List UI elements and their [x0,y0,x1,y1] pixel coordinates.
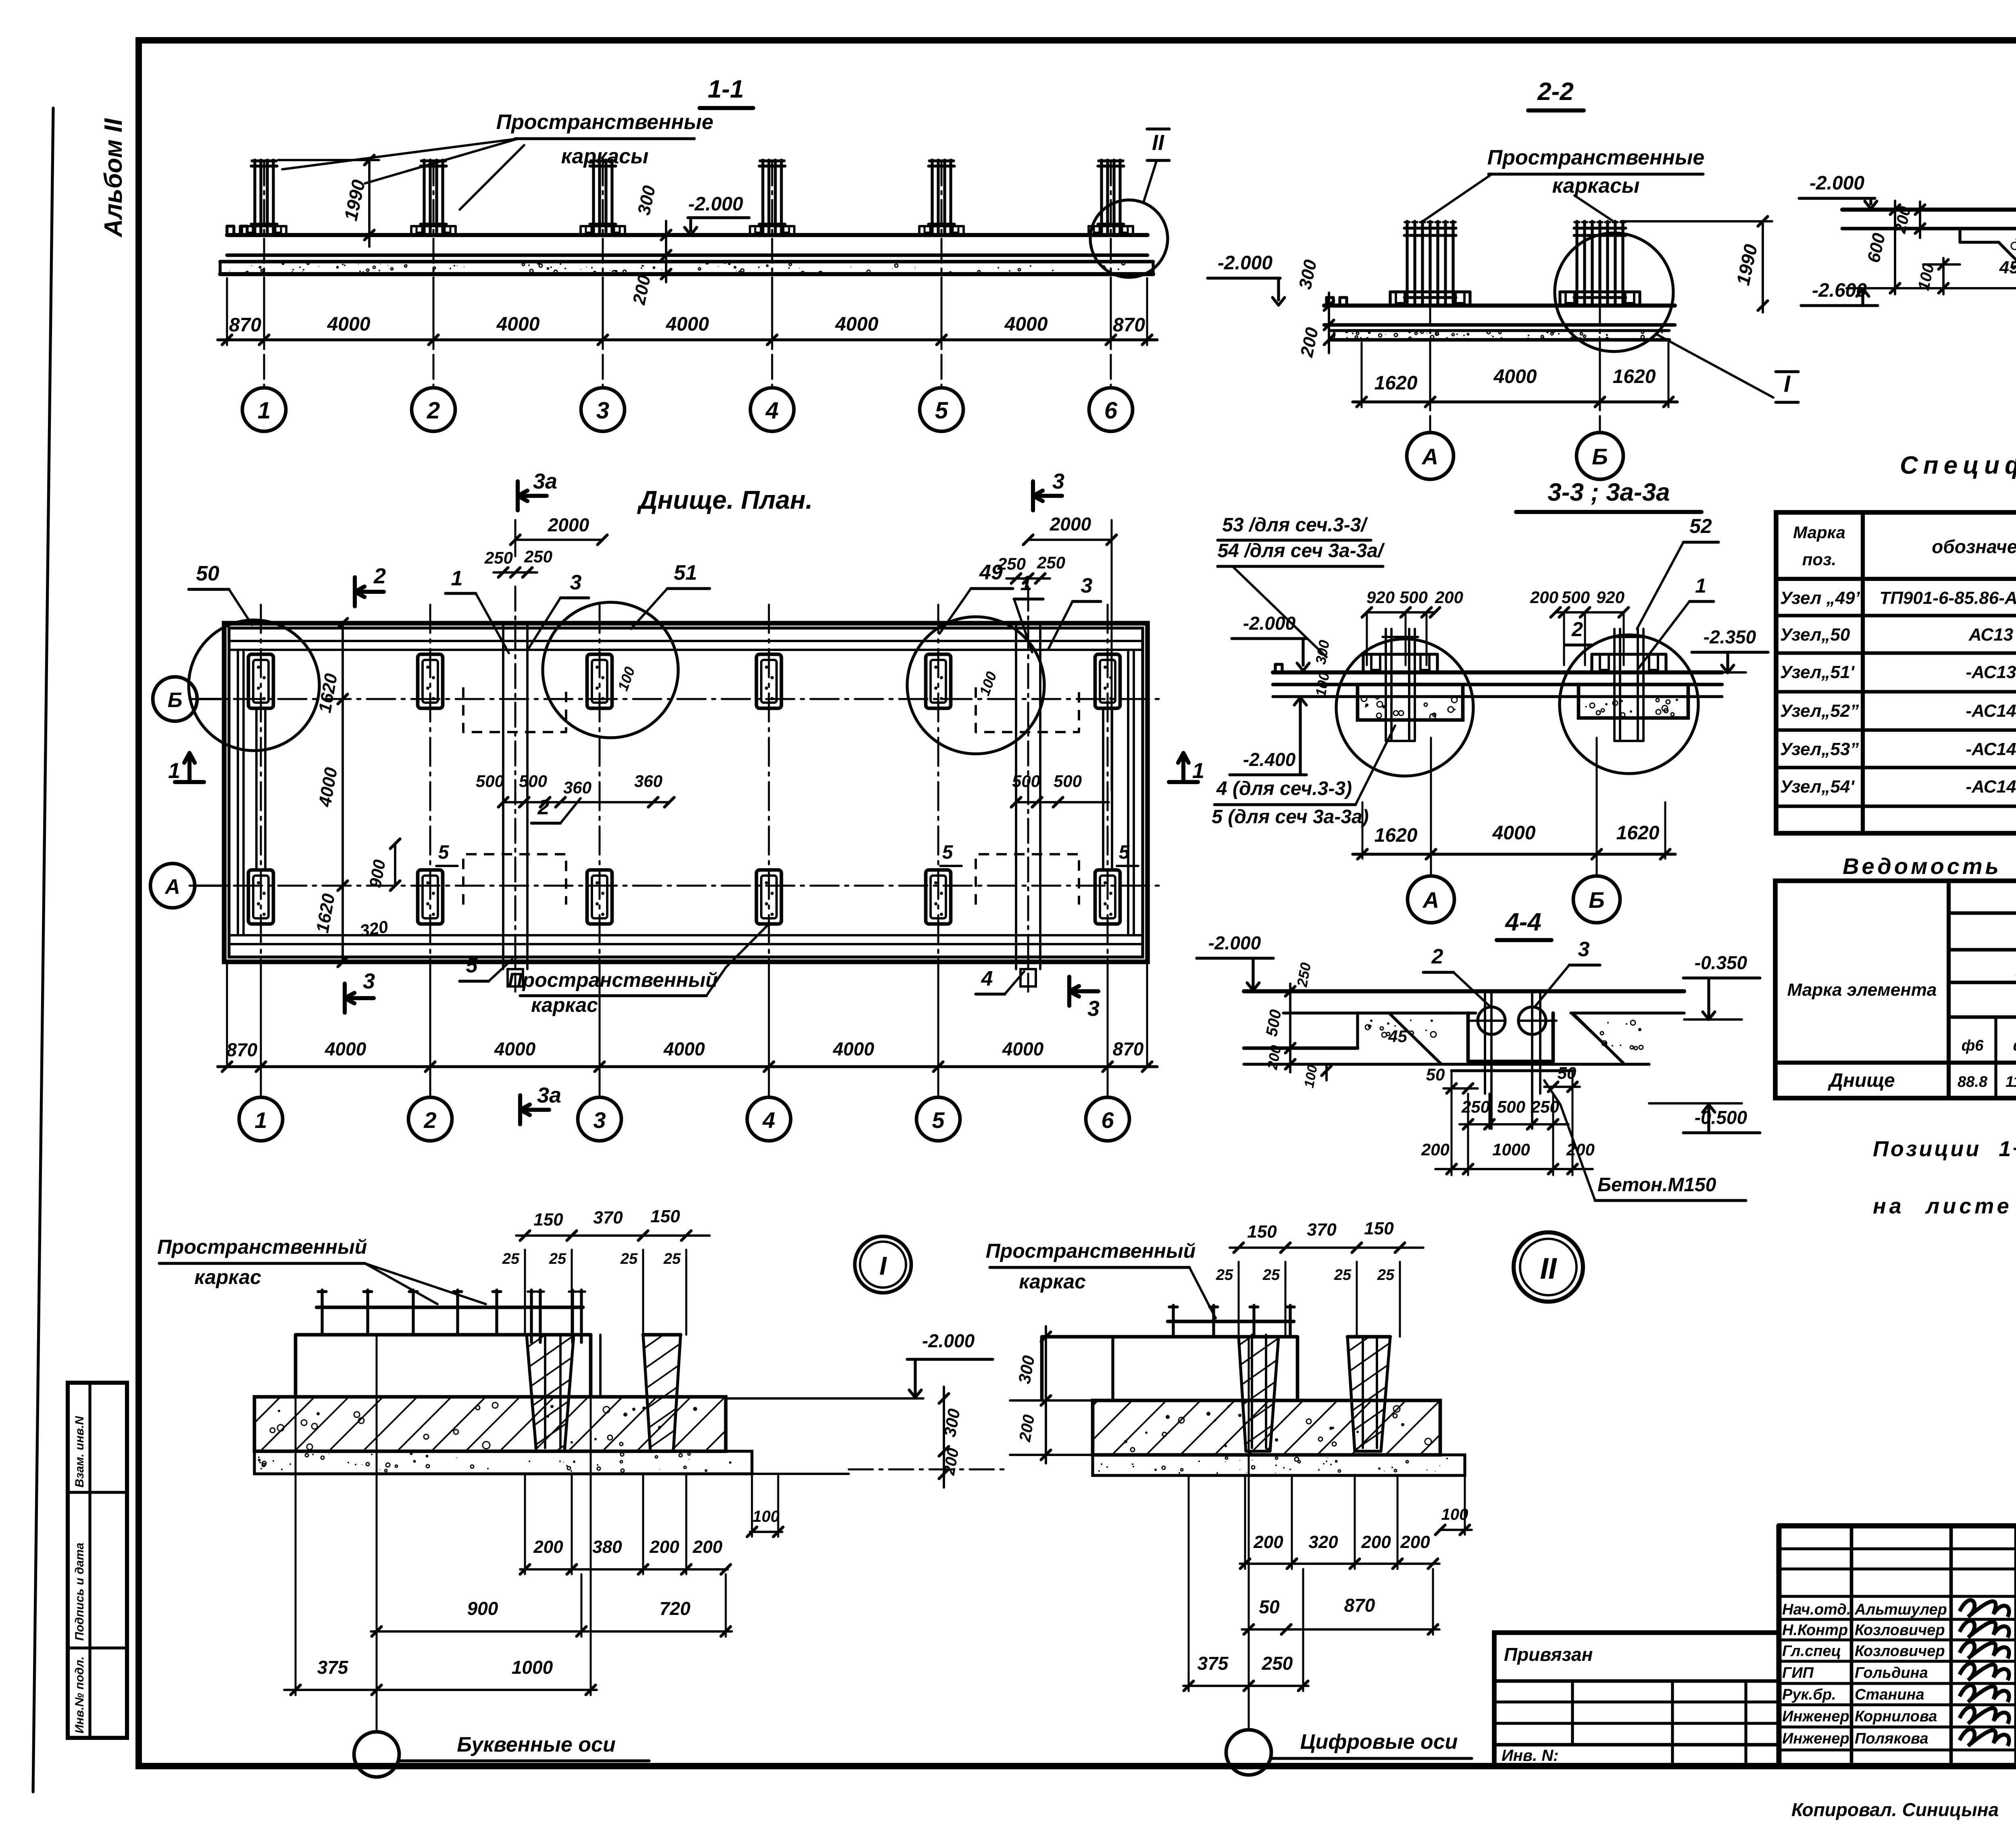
detail II axis circle [1226,1730,1271,1775]
svg-text:обозначение: обозначение [1932,536,2016,557]
plan cage rect at 1907 [756,654,781,708]
svg-text:поз.: поз. [1802,550,1836,569]
svg-text:500: 500 [1012,772,1040,791]
svg-text:250: 250 [1037,553,1065,572]
svg-text:-АС14: -АС14 [1966,777,2016,797]
paper edge [33,108,53,1792]
svg-text:50: 50 [196,562,219,585]
plan bottom dim row [218,1065,1157,1068]
spec table [1776,512,2016,833]
svg-text:100: 100 [753,1508,780,1525]
svg-text:ТП901-6-85.86-АС13. Ал III: ТП901-6-85.86-АС13. Ал III [1879,588,2016,608]
svg-text:4000: 4000 [835,314,879,335]
svg-text:870: 870 [227,1039,258,1060]
leaders to cages 2-2 [1423,175,1491,221]
svg-text:ф8: ф8 [2013,1037,2016,1054]
svg-text:920: 920 [1596,588,1624,607]
detail I 25 dims [524,1250,526,1335]
svg-text:1620: 1620 [1616,822,1660,844]
svg-text:Буквенные оси: Буквенные оси [457,1733,615,1756]
svg-text:Ведомость расхода стали на: Ведомость расхода стали на элемент, кг [1843,853,2016,879]
slab top 5-5 [1842,208,2016,212]
svg-text:360: 360 [634,772,662,791]
plan inner dims 500 500 right [1016,801,1109,803]
plan cage rect at 2747 [1095,654,1120,708]
slab curbs at cages [241,226,243,235]
svg-text:2: 2 [373,564,386,588]
dim 250 500 250 4-4 [1460,1123,1568,1126]
plan cage rect at 2327 [926,870,951,924]
svg-text:4000: 4000 [666,314,709,335]
plan cage rect at 1067 [418,870,443,924]
dim row 2-2 [1353,400,1677,403]
svg-text:53 /для сеч.3-3/: 53 /для сеч.3-3/ [1222,514,1368,536]
svg-text:4000: 4000 [496,314,540,335]
dims above cages 3-3 [1367,611,1435,614]
detail II top small dims 150 370 150 [1230,1246,1423,1249]
plan cage rect at 1907 [756,870,781,924]
plan dim 250 250 right [1006,577,1050,580]
svg-text:2000: 2000 [548,514,589,535]
detail II bottom dim row 1 [1240,1563,1439,1565]
svg-text:каркасы: каркасы [1552,174,1640,198]
plan cage rect at 647 [248,870,273,924]
svg-text:200: 200 [649,1537,679,1557]
svg-text:4: 4 [765,397,779,424]
svg-text:200: 200 [1566,1140,1595,1159]
svg-text:1: 1 [1695,574,1706,597]
svg-text:5: 5 [1119,842,1130,863]
slab left end teeth [227,226,234,235]
svg-text:50: 50 [1259,1596,1280,1617]
svg-text:Козловичер: Козловичер [1855,1622,1945,1639]
svg-text:-2.350: -2.350 [1704,626,1756,647]
dims 300 200 left 2-2 [1328,293,1330,353]
svg-text:1: 1 [451,567,463,590]
svg-text:каркас: каркас [531,994,598,1016]
svg-text:каркас: каркас [194,1266,261,1288]
plan inner dims 500 500 360 360 left [503,801,669,803]
svg-text:Станина: Станина [1855,1686,1924,1703]
svg-text:4: 4 [981,967,993,990]
svg-text:1000: 1000 [512,1657,553,1678]
svg-text:Взам. инв.N: Взам. инв.N [73,1416,86,1488]
svg-text:200: 200 [533,1537,563,1557]
svg-text:-0.350: -0.350 [1695,952,1747,973]
svg-text:II: II [1152,131,1164,155]
svg-text:51: 51 [674,561,697,585]
plan axis circles left [153,677,197,721]
svg-text:200: 200 [1421,1140,1450,1159]
svg-text:ГИП: ГИП [1782,1664,1814,1681]
plan outer rect [224,623,1148,962]
rebar cage section2-2 at x=3547 [1406,221,1408,304]
svg-text:45°: 45° [1388,1027,1414,1046]
detail circles 3-3 [1336,639,1473,776]
svg-text:5: 5 [942,842,954,863]
svg-text:3: 3 [596,397,609,424]
svg-text:-2.600: -2.600 [1812,280,1867,301]
plan vertical cage strips at ends [255,708,258,870]
svg-text:Пространственный: Пространственный [986,1240,1196,1262]
svg-text:200: 200 [1530,588,1558,607]
axis circles 3-3 [1430,738,1432,876]
svg-text:-2.400: -2.400 [1243,749,1296,770]
svg-text:720: 720 [660,1598,691,1619]
svg-text:500: 500 [519,772,547,791]
svg-text:150: 150 [1364,1219,1394,1238]
svg-text:4-4: 4-4 [1504,908,1541,936]
curbs at cages 3-3 [1362,654,1364,672]
svg-text:Позиции 1÷4 см. спецификаци: Позиции 1÷4 см. спецификацию в альбоме I… [1873,1137,2016,1161]
svg-text:-АС14: -АС14 [1966,739,2016,759]
svg-text:Альбом II: Альбом II [100,118,127,238]
svg-text:3-3 ; 3а-3а: 3-3 ; 3а-3а [1547,479,1670,506]
svg-text:250: 250 [997,554,1026,573]
svg-text:2: 2 [423,1107,436,1133]
svg-text:-2.000: -2.000 [688,193,743,215]
left dims 4-4 [1289,984,1291,1056]
detail II dim row 3 [1183,1685,1308,1687]
svg-text:ф6: ф6 [1962,1037,1984,1054]
svg-text:45°: 45° [1999,258,2016,277]
svg-text:920: 920 [1366,588,1395,607]
svg-text:Бетон.М150: Бетон.М150 [1597,1174,1716,1196]
plan bottom beam lines [229,934,1143,936]
svg-text:1000: 1000 [1492,1140,1530,1159]
svg-text:1620: 1620 [1613,366,1656,387]
svg-text:Гольдина: Гольдина [1855,1664,1928,1681]
svg-text:-АС14: -АС14 [1966,701,2016,721]
svg-text:-2.000: -2.000 [1208,932,1261,953]
svg-text:500: 500 [476,772,504,791]
dim 300 200 right of axis3 [665,221,667,282]
svg-text:50: 50 [1426,1065,1445,1084]
svg-text:5: 5 [438,842,450,863]
svg-text:Инженер: Инженер [1782,1708,1849,1725]
svg-text:500: 500 [1497,1097,1525,1116]
plan caret columns [502,623,504,969]
detail I base band hatched [254,1397,726,1451]
svg-text:1620: 1620 [1375,825,1418,846]
svg-text:25: 25 [1334,1267,1352,1284]
svg-text:25: 25 [620,1250,638,1267]
dim 1990 right 2-2 [1762,221,1764,312]
svg-text:2-2: 2-2 [1537,78,1574,106]
detail I circle 2-2 [1555,233,1673,352]
svg-text:Инв.№ подл.: Инв.№ подл. [73,1656,86,1733]
slab 3-3 top [1273,670,1722,674]
svg-text:25: 25 [549,1250,566,1267]
svg-text:5: 5 [466,954,478,977]
dots wedges 4-4 [1368,1025,1371,1028]
svg-text:Б: Б [168,689,183,712]
plan left dims rotated [342,623,344,962]
slab bottom 2-2 [1324,323,1675,327]
slab bottom lines 4-4 [1244,1047,1358,1050]
detail I dim row 2 [371,1630,732,1633]
signature squiggles [1960,1600,2009,1617]
svg-text:88.8: 88.8 [1958,1074,1988,1090]
plan cut mark 3a top [516,481,520,510]
extension lines 4-4 [1467,1094,1469,1175]
svg-text:2: 2 [1431,945,1443,968]
svg-text:Спецификация к схеме днища: Спецификация к схеме днища [1900,451,2016,479]
detail I right extension lines [726,1397,923,1400]
detail II left vertical dims [1045,1326,1047,1463]
plan cage rect at 1067 [418,654,443,708]
detail I dim 100 [750,1531,782,1533]
svg-text:200: 200 [1400,1532,1430,1552]
svg-text:Узел„50: Узел„50 [1780,625,1850,645]
svg-text:870: 870 [229,314,261,336]
svg-text:Б: Б [1592,444,1608,469]
plan cut mark 3 top right [1031,481,1035,510]
svg-text:500: 500 [1562,588,1590,607]
svg-text:6: 6 [1101,1107,1114,1133]
svg-text:1: 1 [258,397,271,424]
svg-text:25: 25 [1216,1267,1233,1284]
left pit 3-3 [1358,685,1463,720]
svg-text:4000: 4000 [327,314,371,335]
slab top section 2-2 [1324,304,1675,308]
svg-text:каркас: каркас [1019,1270,1086,1293]
svg-text:Полякова: Полякова [1855,1730,1929,1747]
plan cage rect at 2327 [926,654,951,708]
dim row section 1-1 [218,338,1157,341]
title block main frame [1779,1523,2016,1528]
rebar cage section1-1 at x=1495 [592,160,595,233]
svg-text:4000: 4000 [1493,366,1537,387]
svg-text:2: 2 [427,397,440,424]
detail I mark circle [855,1236,911,1293]
svg-text:2000: 2000 [1050,514,1091,535]
svg-text:Узел„51': Узел„51' [1780,662,1855,682]
svg-text:25: 25 [1262,1267,1280,1284]
svg-text:на листе АС-14: на листе АС-14 [1873,1194,2016,1218]
pit walls 4-4 [1466,1013,1470,1061]
svg-text:360: 360 [563,778,591,797]
svg-text:А: А [1421,444,1438,469]
rebar cage section1-1 at x=1075 [423,160,425,233]
extension lines to dim row [226,278,228,345]
svg-text:870: 870 [1113,314,1145,336]
svg-text:5: 5 [935,397,948,424]
plan cut mark 1 right [1169,780,1198,784]
svg-text:II: II [1540,1252,1557,1285]
svg-text:4000: 4000 [325,1038,367,1059]
svg-text:-АС13: -АС13 [1966,662,2016,682]
vedomost table [1775,881,2016,1098]
svg-text:250: 250 [1461,1097,1490,1116]
slopes 45 4-4 [1356,1013,1359,1048]
detail II circle at right end [1090,200,1168,277]
svg-text:4000: 4000 [494,1038,536,1059]
svg-text:5 (для сеч 3а-3а): 5 (для сеч 3а-3а) [1212,806,1368,828]
svg-text:500: 500 [1400,588,1428,607]
left slope 45 [1999,242,2016,287]
svg-text:3: 3 [1052,469,1064,493]
plan cage rect at 1487 [587,870,612,924]
svg-text:Пространственный: Пространственный [508,969,718,991]
svg-text:Корнилова: Корнилова [1855,1708,1937,1725]
svg-text:4000: 4000 [1492,822,1536,844]
svg-text:200: 200 [1361,1532,1391,1552]
svg-text:375: 375 [1198,1653,1229,1674]
svg-text:3: 3 [593,1107,606,1133]
svg-text:3: 3 [1087,997,1100,1021]
svg-text:110.4: 110.4 [2006,1074,2016,1090]
slab second line 4-4 [1283,1011,1476,1014]
svg-text:1: 1 [254,1107,267,1133]
detail II base band hatched [1093,1400,1440,1455]
detail II cage [1168,1320,1294,1323]
privyazan table [1494,1633,1779,1766]
plan cage rect at 2747 [1095,870,1120,924]
svg-text:500: 500 [1054,772,1082,791]
dim 1990 vertical [368,160,371,247]
svg-text:150: 150 [1247,1222,1277,1242]
svg-text:320: 320 [1308,1532,1338,1552]
svg-text:54 /для сеч 3а-3а/: 54 /для сеч 3а-3а/ [1218,540,1385,562]
title block small rows [1779,1547,2016,1550]
svg-text:6: 6 [1104,397,1118,424]
svg-text:Пространственные: Пространственные [1487,146,1705,169]
vedomost horizontal lines [1949,911,2016,915]
svg-text:5: 5 [932,1107,945,1133]
cage verticals into pits 3-3 [1385,629,1387,741]
svg-text:1-1: 1-1 [708,75,744,103]
plan cut 3 bottom left [343,984,347,1013]
plan cut 3 bottom right [1067,977,1071,1006]
plan dashed footing outlines [463,687,566,732]
svg-text:АС13: АС13 [1968,625,2013,645]
plan dim 2000 left [515,539,602,541]
detail II dim 100 [1439,1529,1472,1531]
detail I rib 2 hatched [643,1335,681,1451]
svg-text:-0.500: -0.500 [1695,1107,1747,1128]
detail II mark circle [1514,1232,1583,1302]
extension lines 2-2 [1360,343,1362,407]
svg-text:Узел„53”: Узел„53” [1780,739,1859,759]
plan detail circles 50 51 49 [189,620,319,751]
slab bottom left and right 5-5 [1842,227,2016,231]
detail II slab block [1042,1337,1297,1400]
svg-text:375: 375 [317,1657,349,1678]
left underlay step 5-5 [1958,229,1961,242]
slab bottom [227,254,1148,257]
plan cut 3a bottom [518,1095,522,1124]
slab top section 1-1 [227,233,1148,237]
svg-text:200: 200 [692,1537,723,1557]
svg-text:870: 870 [1113,1038,1144,1059]
detail I axis circle [354,1732,399,1777]
svg-text:3: 3 [363,969,375,993]
axis circles A B 2-2 [1429,223,1431,433]
detail I rib 1 hatched [527,1335,574,1451]
dim 200 1000 200 4-4 [1435,1168,1593,1170]
svg-text:А: А [1422,887,1439,913]
detail I right vertical dims [943,1387,945,1488]
svg-text:1: 1 [1192,759,1204,783]
plan inner edge verticals [237,650,239,935]
svg-text:25: 25 [663,1250,681,1267]
svg-text:900: 900 [467,1598,498,1619]
svg-text:2: 2 [1571,618,1583,641]
anchor circles 2 3 4-4 [1478,1007,1505,1034]
axis lines and circles 1-6 [263,161,265,388]
svg-text:4000: 4000 [663,1038,705,1059]
svg-text:250: 250 [484,548,513,567]
detail II rib 2 hatched [1347,1337,1390,1451]
dim row 3-3 [1353,853,1675,855]
svg-text:Козловичер: Козловичер [1855,1643,1945,1660]
svg-text:200: 200 [1253,1532,1283,1552]
svg-text:Узел „49”: Узел „49” [1780,588,1864,608]
svg-text:25: 25 [1377,1267,1395,1284]
svg-text:380: 380 [592,1537,622,1557]
svg-text:Днище. План.: Днище. План. [637,485,812,514]
plan axis circles bottom [239,1097,283,1141]
svg-text:Инженер: Инженер [1782,1730,1849,1747]
svg-text:3: 3 [570,571,582,594]
svg-text:-2.000: -2.000 [1810,173,1864,194]
svg-text:Пространственный: Пространственный [157,1236,367,1258]
detail I prep band dotted [254,1451,752,1474]
svg-text:Инв. N:: Инв. N: [1502,1747,1559,1764]
rebar cage section1-1 at x=2755 [1100,160,1103,233]
svg-text:А: А [164,875,180,899]
svg-text:Нач.отд.: Нач.отд. [1782,1601,1851,1618]
title block vertical lines [1850,1526,1854,1766]
svg-text:Узел„54': Узел„54' [1780,777,1855,797]
svg-text:4 (для сеч.3-3): 4 (для сеч.3-3) [1216,778,1352,799]
svg-text:870: 870 [1344,1595,1375,1616]
svg-text:Привязан: Привязан [1504,1644,1593,1665]
svg-text:Копировал. Синицына: Копировал. Синицына [1791,1799,1999,1820]
rebar cage section1-1 at x=1915 [761,160,764,233]
right pit 3-3 [1579,685,1688,718]
detail I bottom dim row 1 [520,1568,728,1571]
svg-text:I: I [879,1251,887,1280]
rebar cage section1-1 at x=2335 [931,160,933,233]
gravel band 2-2 [1331,329,1669,332]
svg-text:-2.000: -2.000 [922,1330,975,1351]
plan cut mark 1 left [175,780,204,784]
svg-text:-2.000: -2.000 [1243,613,1296,634]
slab top 4-4 [1244,989,1684,993]
plan dim 250 250 left [494,571,537,574]
detail II rib 1 hatched [1239,1337,1279,1451]
detail II 25 dims [1238,1262,1240,1337]
svg-text:3а: 3а [533,469,557,493]
svg-text:Гл.спец: Гл.спец [1782,1643,1841,1660]
svg-text:25: 25 [502,1250,520,1267]
svg-text:200: 200 [1435,588,1463,607]
dim 600 200 left 5-5 [1894,201,1896,294]
svg-text:4000: 4000 [1002,1038,1044,1059]
rebar cage section2-2 at x=3968 [1575,221,1578,304]
detail I slab block [296,1335,591,1397]
svg-text:Подпись и дата: Подпись и дата [73,1543,86,1641]
svg-text:I: I [1784,371,1791,397]
svg-text:3а: 3а [537,1083,561,1107]
detail II prep band dotted [1093,1455,1465,1475]
plan cage rect at 647 [248,654,273,708]
svg-text:150: 150 [533,1210,563,1230]
svg-text:4000: 4000 [1004,314,1048,335]
detail I top small dims 150 370 150 [516,1234,710,1237]
